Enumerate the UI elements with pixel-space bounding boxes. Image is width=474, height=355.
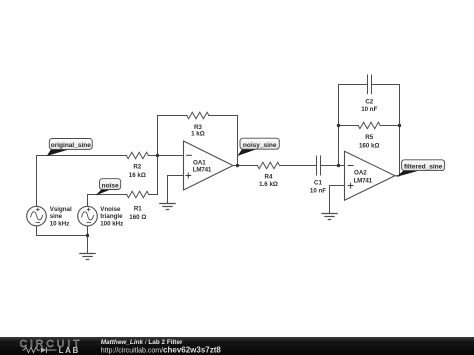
svg-text:R4: R4 — [265, 173, 273, 180]
svg-text:16 kΩ: 16 kΩ — [129, 172, 146, 179]
svg-text:OA1: OA1 — [193, 159, 206, 166]
svg-text:noisy_sine: noisy_sine — [243, 142, 277, 149]
svg-text:10 nF: 10 nF — [310, 188, 326, 195]
svg-text:LAB: LAB — [59, 346, 80, 355]
svg-text:1 kΩ: 1 kΩ — [191, 130, 205, 137]
svg-text:100 kHz: 100 kHz — [100, 220, 123, 227]
svg-text:C1: C1 — [314, 180, 322, 187]
svg-text:http://circuitlab.com/chev62w3: http://circuitlab.com/chev62w3s7zt8 — [101, 346, 222, 355]
svg-text:OA2: OA2 — [354, 170, 367, 177]
svg-text:10 nF: 10 nF — [361, 106, 377, 113]
svg-text:160 kΩ: 160 kΩ — [359, 142, 379, 149]
svg-text:1.6 kΩ: 1.6 kΩ — [259, 181, 278, 188]
svg-text:filtered_sine: filtered_sine — [404, 163, 443, 170]
svg-text:triangle: triangle — [100, 213, 123, 220]
svg-text:160 Ω: 160 Ω — [129, 214, 146, 221]
svg-text:noise: noise — [102, 182, 119, 189]
svg-text:C2: C2 — [365, 99, 373, 106]
svg-text:sine: sine — [50, 213, 63, 220]
svg-text:LM741: LM741 — [193, 167, 212, 174]
svg-text:Vnoise: Vnoise — [100, 206, 121, 213]
svg-text:10 kHz: 10 kHz — [50, 220, 70, 227]
svg-text:R1: R1 — [134, 205, 142, 212]
svg-text:original_sine: original_sine — [51, 142, 91, 149]
svg-text:LM741: LM741 — [354, 177, 373, 184]
svg-text:R5: R5 — [365, 134, 373, 141]
svg-text:R2: R2 — [133, 164, 141, 171]
svg-text:Vsignal: Vsignal — [50, 206, 72, 213]
